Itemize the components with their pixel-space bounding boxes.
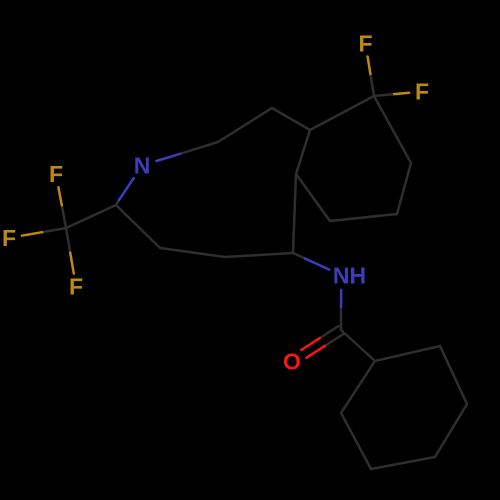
- wire chain C2-C3-C4-Cam: [116, 205, 293, 257]
- bond F2-CF2 carbon (fluorine half, gold): [394, 93, 409, 94]
- bond Cam to NH (carbon half): [293, 253, 305, 259]
- bond NH to carbonyl C (carbon half): [340, 307, 343, 330]
- svg-text:F: F: [2, 225, 16, 251]
- wire chain B1-V7-V6: [218, 108, 310, 142]
- bond F5-CF3 carbon (fluorine half, gold): [70, 253, 74, 274]
- C-F bond carbon halves at CF2: [370, 74, 374, 96]
- svg-text:F: F: [69, 274, 83, 300]
- bond F1-CF2 carbon (fluorine half, gold): [368, 57, 371, 75]
- svg-text:F: F: [358, 31, 372, 57]
- bond B2-Cam: [293, 174, 296, 253]
- svg-text:F: F: [415, 79, 429, 105]
- bond Cam-NH (nitrogen half, blue): [305, 259, 329, 270]
- bond F3-CF3 carbon (fluorine half, gold): [58, 187, 61, 205]
- bond V6 to N (carbon half): [180, 142, 218, 154]
- bond N-V6 (nitrogen half, blue): [156, 154, 180, 161]
- svg-text:O: O: [283, 349, 301, 375]
- bond F4-CF3 carbon (fluorine half, gold): [22, 232, 42, 236]
- C=O double bond oxygen halves (red): [301, 338, 320, 350]
- C=O double bond carbon halves: [320, 326, 339, 338]
- ring D (cyclohexane ring): [341, 346, 467, 469]
- svg-text:F: F: [49, 161, 63, 187]
- bond N-C2 (nitrogen half, blue): [119, 178, 134, 200]
- bond N-C2 stub and bond C2 to CF3 carbon: [66, 200, 119, 228]
- bond NH-carbonyl C (nitrogen half, blue): [340, 290, 343, 307]
- bond carbonyl C to ring D: [341, 330, 375, 361]
- ring B (gem-difluoro cyclohexane ring): [296, 96, 411, 221]
- svg-text:N: N: [134, 153, 151, 179]
- svg-text:NH: NH: [333, 263, 366, 289]
- C-F bond carbon halves at CF3: [62, 205, 66, 228]
